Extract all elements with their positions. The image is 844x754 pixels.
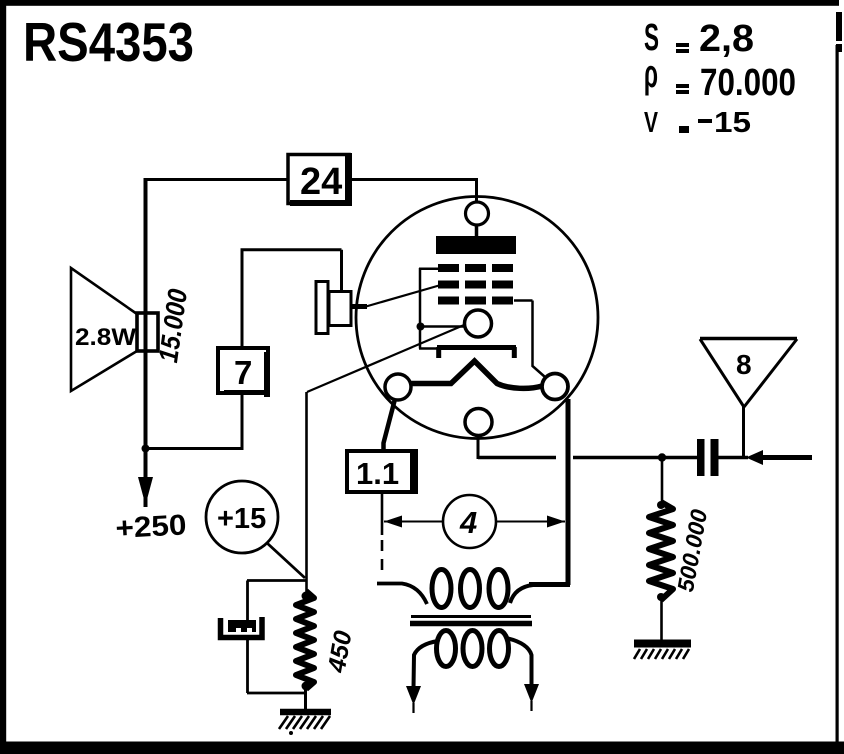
border frame left bar [0, 0, 6, 754]
cathode pin (center) [465, 310, 492, 337]
wire junction to resistor [661, 458, 664, 504]
transformer primary entry left [377, 584, 427, 605]
tube envelope U1 [356, 197, 598, 439]
border frame right line [836, 45, 839, 745]
wire top horizontal left [145, 178, 288, 181]
svg-text:4: 4 [459, 505, 477, 540]
wire +15 to cathode node [267, 543, 305, 578]
svg-text:+250: +250 [115, 509, 188, 545]
heater pin (bottom left) [385, 374, 411, 400]
grid row 2 [438, 281, 513, 289]
pin (bottom right) [542, 374, 568, 400]
svg-text:1.1: 1.1 [356, 456, 399, 491]
wire heater pin to box 1.1 [384, 399, 396, 452]
svg-text:70.000: 70.000 [700, 62, 796, 104]
svg-text:ρ: ρ [644, 52, 658, 96]
transformer primary winding [432, 570, 508, 608]
grid row3 right link to pin [514, 301, 545, 378]
box 1.1 [347, 451, 417, 493]
resistor 500.000 [657, 501, 665, 509]
pin (bottom) [465, 409, 492, 436]
dashed lead below box 1.1 [381, 493, 384, 535]
wire bottom pin down [477, 435, 480, 459]
svg-text:V: V [644, 107, 658, 139]
grid row 3 [438, 297, 513, 305]
ground (cathode) [279, 712, 331, 735]
ground (grid resistor) [634, 644, 691, 660]
wire cathode bias vertical [305, 392, 308, 594]
transformer secondary lead right [506, 638, 539, 711]
border frame corner mark top-right [836, 12, 842, 52]
transformer secondary winding [437, 631, 509, 667]
grid ladder junction dot [417, 323, 425, 331]
speaker driver [137, 313, 158, 351]
bypass capacitor branch wires [247, 581, 306, 694]
svg-text:+15: +15 [217, 503, 266, 535]
wire box24 to tube top [352, 178, 477, 204]
svg-text:8: 8 [736, 349, 752, 380]
transformer core [411, 615, 531, 618]
svg-text:RS4353: RS4353 [23, 11, 194, 73]
bypass capacitor C1 [221, 617, 263, 638]
dimension arrow left [384, 516, 443, 528]
pointer line A (grid contact to grid) [366, 286, 439, 307]
junction rail/box7 [142, 445, 150, 453]
pointer/wire line B (cathode pin to bias rail) [307, 325, 464, 392]
antenna lead [742, 406, 745, 459]
wire box7 output to rail [146, 393, 243, 450]
svg-text:7: 7 [234, 354, 252, 391]
wire bottom-right pin to transformer [529, 399, 570, 585]
grid row 1 [438, 264, 513, 272]
resistor 450 [296, 591, 314, 689]
arrow +250 [138, 477, 153, 505]
antenna symbol 8 [700, 339, 797, 408]
dimension circle 4 [443, 495, 496, 548]
node circle +15 [206, 481, 278, 553]
wire box7 input from grid contact [241, 250, 342, 348]
label rho = 70.000 [644, 52, 796, 104]
svg-text:2.8W: 2.8W [75, 324, 136, 351]
wire grid-leak horizontal (right of crossover) [573, 456, 698, 460]
wire resistor to ground [304, 686, 307, 711]
junction dot at grid resistor [658, 453, 666, 461]
label S = 2,8 [644, 17, 754, 60]
border frame top bar [0, 0, 839, 6]
speaker cone [71, 268, 137, 391]
input arrow [718, 450, 812, 465]
svg-text:2,8: 2,8 [699, 18, 754, 60]
label V = -15 [644, 107, 751, 139]
heater filament [409, 361, 542, 388]
transformer primary entry right [510, 585, 533, 603]
coupling capacitor C2 [697, 439, 719, 476]
box 7 [218, 348, 270, 397]
transformer secondary lead left [406, 641, 438, 713]
border frame bottom bar [0, 742, 844, 754]
dimension arrow right [496, 516, 565, 528]
anode pin (top) [466, 202, 489, 225]
grid side contact electrode [316, 282, 367, 334]
svg-text:15: 15 [714, 107, 751, 139]
left vertical wire (speaker / +250 rail) [144, 178, 148, 507]
grid ladder left connection [419, 268, 464, 349]
wire grid-leak horizontal (left of crossover) [478, 456, 556, 460]
anode plate [436, 225, 516, 254]
svg-text:24: 24 [300, 161, 342, 203]
wire resistor to ground [660, 598, 663, 642]
box 24 [288, 153, 352, 206]
cathode plate [437, 347, 516, 358]
